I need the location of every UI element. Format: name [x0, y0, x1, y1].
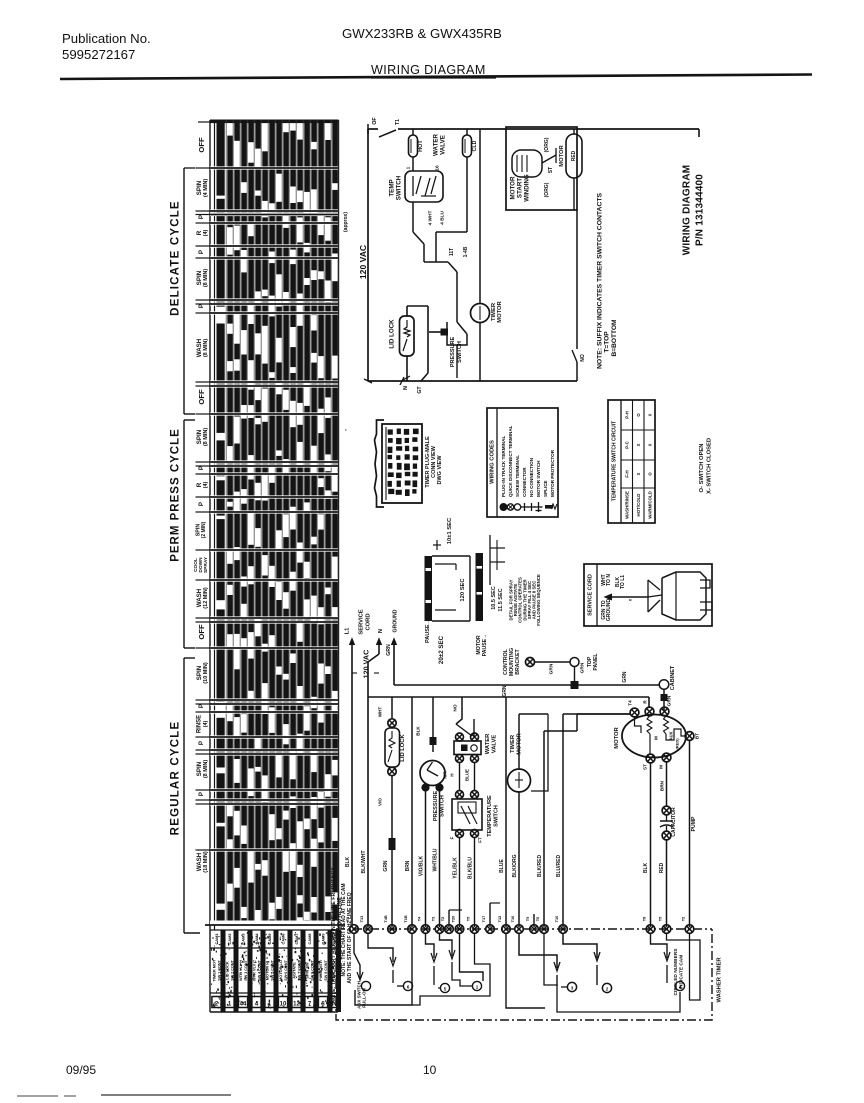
svg-text:3: 3 — [571, 986, 574, 991]
svg-text:CAM2: CAM2 — [227, 933, 232, 945]
svg-text:ST: ST — [643, 764, 648, 770]
bottom schematic: ground bus wire to cabinet — [394, 684, 571, 686]
svg-text:T4: T4 — [628, 700, 633, 706]
bottom schematic: splice square on ground wire — [574, 666, 576, 681]
svg-text:DELICATE CYCLE: DELICATE CYCLE — [170, 200, 182, 316]
chart label column cell ticks — [196, 167, 211, 169]
top schematic: temp switch box — [412, 157, 414, 171]
svg-text:R: R — [196, 482, 203, 487]
svg-text:BLK: BLK — [643, 862, 649, 873]
bottom schematic: lid lock branch — [391, 697, 393, 718]
top schematic: wire cold valve branch — [466, 157, 468, 232]
timer contact group 2 — [368, 934, 393, 963]
timer contact group 5 — [563, 934, 597, 959]
svg-text:PANEL: PANEL — [593, 653, 599, 671]
svg-text:WIRING DIAGRAM: WIRING DIAGRAM — [682, 165, 693, 256]
timing detail: spray pulse — [489, 535, 491, 585]
bottom schematic: motor terminals bottom — [646, 754, 655, 763]
svg-text:SWITCH: SWITCH — [494, 805, 500, 827]
svg-text:10.5 SEC: 10.5 SEC — [491, 586, 497, 610]
chart legend cam number boxes — [212, 997, 221, 1008]
svg-text:CORD: CORD — [366, 613, 372, 630]
svg-text:GRN: GRN — [386, 644, 392, 656]
svg-text:TEMP: TEMP — [389, 179, 396, 196]
svg-text:(ORG): (ORG) — [544, 182, 550, 197]
svg-text:GROUND: GROUND — [393, 609, 399, 632]
svg-text:T4B: T4B — [383, 915, 388, 923]
svg-text:X: X — [636, 443, 641, 446]
timing detail: pause cam bar — [425, 556, 433, 621]
washer timer dash-dot enclosure — [336, 929, 712, 1020]
svg-text:(8 MIN): (8 MIN) — [203, 428, 209, 447]
perm press cycle bracket — [183, 420, 185, 648]
svg-text:SW 9 CONT: SW 9 CONT — [324, 960, 328, 981]
svg-text:120 VAC: 120 VAC — [362, 650, 371, 679]
timer plug connector — [375, 420, 385, 507]
svg-text:PUMP: PUMP — [691, 816, 697, 832]
chart label OFF (top) — [198, 121, 210, 123]
top schematic: start switch contact — [542, 155, 556, 163]
svg-text:PRESSURE: PRESSURE — [433, 791, 439, 822]
svg-text:BLUE: BLUE — [499, 859, 505, 873]
svg-text:12: 12 — [293, 1002, 300, 1008]
svg-text:SW 5 CONT: SW 5 CONT — [270, 960, 274, 981]
svg-text:BLK/ORG: BLK/ORG — [512, 854, 518, 877]
bottom schematic: temp switch wires to bus — [459, 838, 461, 928]
svg-text:RED: RED — [571, 150, 577, 161]
svg-text:M: M — [659, 765, 664, 769]
svg-text:CAM8: CAM8 — [307, 933, 312, 945]
svg-text:(4 MIN): (4 MIN) — [203, 179, 209, 198]
top schematic: lid lock coil + contact — [404, 320, 410, 337]
svg-text:CONNECTOR: CONNECTOR — [522, 467, 527, 497]
extra bus stub wires — [448, 910, 450, 927]
svg-text:L1: L1 — [345, 627, 351, 635]
svg-text:SPIN: SPIN — [196, 180, 203, 195]
svg-text:T1: T1 — [395, 119, 401, 125]
svg-text:VALVE: VALVE — [440, 135, 447, 155]
top schematic: wire temp switch to pressure switch — [412, 202, 414, 232]
svg-text:10: 10 — [423, 1063, 437, 1077]
bottom schematic: pressure switch (lower) — [432, 697, 434, 752]
svg-text:PLUG-IN TRACK TERMINAL: PLUG-IN TRACK TERMINAL — [501, 436, 506, 497]
svg-text:WASH/RINSE: WASH/RINSE — [625, 491, 630, 519]
svg-text:YEL/BLK: YEL/BLK — [453, 857, 459, 879]
svg-text:F: F — [450, 836, 455, 839]
svg-text:BLK/WHT: BLK/WHT — [361, 850, 367, 873]
svg-text:5: 5 — [444, 987, 447, 992]
svg-text:T13: T13 — [359, 915, 364, 923]
svg-text:MOTOR SWITCH: MOTOR SWITCH — [536, 460, 541, 497]
svg-text:TIMER MOT: TIMER MOT — [211, 959, 216, 981]
bottom schematic: control mounting bracket terminal — [526, 658, 535, 667]
svg-text:10±1 SEC: 10±1 SEC — [447, 517, 453, 544]
svg-text:WATER: WATER — [485, 733, 491, 754]
svg-text:MOTOR PROTECTOR: MOTOR PROTECTOR — [550, 449, 555, 497]
top schematic: L1 supply rail (top) — [368, 128, 378, 130]
svg-text:TO L1: TO L1 — [620, 575, 626, 589]
svg-text:MOTOR: MOTOR — [497, 300, 503, 322]
svg-text:BLK/BLU: BLK/BLU — [468, 857, 474, 879]
svg-text:SERVICE CORD: SERVICE CORD — [588, 574, 594, 616]
timer contact group 6 (right) — [651, 934, 668, 959]
bottom schematic: motor to bus wires — [650, 763, 652, 927]
svg-text:WARM/COLD: WARM/COLD — [648, 491, 653, 519]
timer chart cam track stripes — [217, 121, 225, 196]
service cord arrow — [607, 596, 648, 598]
svg-text:N: N — [378, 629, 384, 633]
svg-text:SPRAY: SPRAY — [203, 556, 209, 573]
svg-text:O- SWITCH OPEN: O- SWITCH OPEN — [699, 444, 705, 493]
top schematic: line cam switch — [379, 130, 396, 137]
svg-text:20±2 SEC: 20±2 SEC — [438, 635, 445, 664]
bottom schematic: valve to temp switch wires — [459, 763, 461, 792]
svg-text:GRN: GRN — [667, 695, 673, 706]
timer chart outer frame — [209, 120, 211, 930]
chart legend block grid — [210, 1011, 338, 1013]
svg-text:4: 4 — [679, 985, 682, 990]
svg-text:SPIN: SPIN — [196, 270, 203, 285]
top schematic: start winding coil — [512, 150, 542, 177]
svg-text:BRACKET: BRACKET — [515, 648, 521, 674]
top schematic: temp switch contacts — [412, 176, 414, 196]
svg-text:R: R — [196, 230, 203, 235]
top schematic: bottom rail — [368, 380, 577, 382]
svg-text:WATER: WATER — [433, 134, 440, 156]
svg-text:WINDING: WINDING — [524, 174, 531, 202]
svg-text:4 BLU: 4 BLU — [440, 211, 446, 225]
svg-text:LID LOCK: LID LOCK — [400, 734, 406, 762]
svg-text:REGULAR CYCLE: REGULAR CYCLE — [170, 721, 182, 836]
svg-text:WTR VLV H: WTR VLV H — [238, 960, 243, 981]
top schematic: 120 VAC left rail — [367, 129, 369, 381]
svg-text:GRN: GRN — [383, 860, 389, 872]
svg-text:(8 MIN): (8 MIN) — [203, 760, 209, 779]
svg-text:1: 1 — [476, 985, 479, 990]
wiring codes symbols — [500, 504, 507, 511]
timing detail: 10 sec tick — [436, 540, 438, 550]
timer internal contact leftmost with aux switch label — [354, 934, 360, 979]
bottom schematic: water valve feed — [456, 697, 462, 724]
top schematic: right rail with cam switch — [576, 210, 578, 349]
bottom schematic: motor terminals top — [630, 708, 639, 717]
svg-text:MOTOR: MOTOR — [559, 144, 565, 166]
svg-text:WIRING DIAGRAM: WIRING DIAGRAM — [371, 63, 486, 77]
svg-text:PAUSE→: PAUSE→ — [482, 634, 488, 657]
svg-text:BLK/RED: BLK/RED — [537, 855, 543, 878]
svg-text:GROUND: GROUND — [606, 599, 612, 622]
timer contact group 4 (middle) — [506, 934, 545, 1009]
svg-text:DWG VIEW: DWG VIEW — [437, 455, 443, 485]
svg-text:BLK: BLK — [416, 726, 421, 736]
svg-text:T17: T17 — [481, 916, 486, 923]
bottom schematic: bracket to top panel wire — [535, 661, 570, 663]
svg-text:QUICK DISCONNECT TERMINAL: QUICK DISCONNECT TERMINAL — [508, 425, 513, 497]
svg-text:P: P — [198, 215, 205, 219]
svg-text:10: 10 — [280, 1002, 287, 1008]
bottom schematic: pressure switch wires to bus — [425, 791, 427, 927]
svg-text:SPIN: SPIN — [196, 665, 203, 680]
svg-text:120 VAC: 120 VAC — [358, 245, 368, 279]
top schematic: water valve COLD solenoid — [466, 129, 468, 135]
svg-text:BLU/RED: BLU/RED — [556, 855, 562, 878]
svg-text:SW 8 CONT: SW 8 CONT — [310, 960, 314, 981]
svg-text:NOTE: SUFFIX INDICATES TIMER S: NOTE: SUFFIX INDICATES TIMER SWITCH CONT… — [597, 192, 604, 369]
svg-text:11.5 SEC: 11.5 SEC — [498, 588, 504, 611]
svg-text:WIRING CODES: WIRING CODES — [490, 440, 496, 484]
svg-text:CLD: CLD — [472, 140, 478, 151]
svg-text:MOTOR: MOTOR — [517, 732, 523, 754]
svg-text:N: N — [403, 386, 409, 390]
svg-text:PRESSURE: PRESSURE — [450, 337, 456, 368]
svg-text:CAPACITOR: CAPACITOR — [671, 807, 677, 837]
top schematic: pressure switch (upper) — [447, 322, 467, 345]
svg-text:TEMPERATURE: TEMPERATURE — [487, 795, 493, 837]
svg-text:P-C: P-C — [625, 440, 630, 448]
svg-text:CABINET: CABINET — [670, 665, 676, 690]
bottom schematic: third feed wire — [543, 731, 545, 927]
svg-text:P: P — [198, 466, 205, 470]
svg-text:FT: FT — [478, 837, 483, 843]
bottom schematic: top panel terminal — [570, 658, 579, 667]
svg-text:(ORG): (ORG) — [544, 137, 550, 152]
svg-text:BRN: BRN — [660, 780, 665, 791]
svg-text:VALVE: VALVE — [492, 735, 498, 754]
svg-text:GWX233RB & GWX435RB: GWX233RB & GWX435RB — [342, 26, 502, 41]
svg-text:X: X — [648, 443, 653, 446]
svg-text:X- SWITCH CLOSED: X- SWITCH CLOSED — [707, 438, 713, 494]
svg-text:MR: MR — [443, 771, 449, 779]
svg-text:BLUE: BLUE — [465, 769, 470, 781]
top schematic: motor (upper) body — [566, 134, 582, 178]
svg-text:FOLLOWING SEQUENCE: FOLLOWING SEQUENCE — [536, 574, 541, 626]
svg-text:ST: ST — [548, 167, 554, 173]
svg-text:H: H — [450, 773, 455, 776]
svg-text:P: P — [198, 741, 205, 745]
svg-text:2: 2 — [606, 987, 609, 992]
chart legend column separator stripes — [221, 930, 226, 1012]
svg-text:P-H: P-H — [625, 411, 630, 419]
bottom schematic: box around timer motor — [531, 714, 548, 791]
svg-text:MOTOR: MOTOR — [510, 176, 517, 199]
timing detail: motor pause bar — [476, 553, 484, 621]
svg-text:T10: T10 — [554, 916, 559, 923]
svg-text:P: P — [198, 250, 205, 254]
bottom schematic: timer motor (lower) — [505, 697, 507, 927]
delicate cycle bracket — [183, 168, 185, 414]
svg-text:TEMPERATURE SWITCH CIRCUIT: TEMPERATURE SWITCH CIRCUIT — [612, 421, 618, 501]
temperature switch circuit table — [608, 400, 655, 523]
svg-text:F-H: F-H — [625, 470, 630, 477]
svg-text:LID LOCK: LID LOCK — [389, 319, 396, 349]
svg-text:MOTOR LO: MOTOR LO — [278, 960, 283, 981]
svg-text:P: P — [198, 502, 205, 506]
svg-text:(8 MIN): (8 MIN) — [203, 339, 209, 358]
timer plug pin blobs — [388, 429, 393, 434]
bottom schematic: main top wire — [368, 696, 649, 698]
svg-text:GT: GT — [417, 386, 423, 394]
svg-text:SPIN: SPIN — [196, 429, 203, 444]
svg-text:T20: T20 — [451, 916, 456, 923]
svg-text:P: P — [198, 304, 205, 308]
header horizontal rule — [60, 75, 812, 80]
svg-text:T=TOP: T=TOP — [604, 331, 611, 353]
svg-text:START: START — [517, 178, 524, 198]
svg-text:09/95: 09/95 — [66, 1063, 96, 1077]
svg-text:P: P — [198, 792, 205, 796]
svg-text:(4): (4) — [203, 720, 209, 727]
svg-text:T1B: T1B — [403, 915, 408, 923]
top schematic: lid lock wiring loop — [406, 306, 408, 316]
svg-text:OFF: OFF — [197, 137, 206, 153]
bottom schematic: plain wire BRN — [411, 697, 413, 927]
svg-text:NO CONNECTION: NO CONNECTION — [529, 457, 534, 497]
svg-text:(approx): (approx) — [343, 212, 349, 232]
top schematic: lid lock box — [400, 316, 415, 356]
svg-text:X: X — [636, 472, 641, 475]
service cord plug drawing — [662, 572, 706, 620]
svg-text:M: M — [654, 736, 659, 740]
svg-text:SPLICE: SPLICE — [543, 480, 548, 497]
svg-text:OFF: OFF — [197, 624, 206, 640]
svg-text:B=BOTTOM: B=BOTTOM — [611, 319, 618, 357]
bottom schematic: neutral wire — [378, 640, 380, 654]
svg-text:1-4B: 1-4B — [463, 246, 469, 257]
svg-text:WASH: WASH — [196, 338, 203, 357]
svg-text:4 WHT: 4 WHT — [428, 210, 434, 225]
regular cycle bracket — [183, 658, 185, 933]
svg-text:120 SEC: 120 SEC — [460, 578, 466, 602]
bottom schematic: temperature switch (lower) — [456, 791, 464, 799]
svg-text:VIO: VIO — [378, 798, 383, 806]
svg-text:SWITCH: SWITCH — [396, 175, 403, 200]
svg-text:T12: T12 — [497, 915, 502, 923]
svg-text:WASH: WASH — [196, 588, 203, 607]
svg-text:SWITCH: SWITCH — [440, 795, 446, 817]
svg-text:44: 44 — [240, 1002, 247, 1008]
svg-text:X: X — [648, 413, 653, 416]
timer chart track separator lines — [225, 120, 227, 925]
svg-text:RED: RED — [659, 862, 665, 873]
top schematic: water valve HOT solenoid — [412, 129, 414, 135]
svg-text:CAM1: CAM1 — [214, 933, 219, 945]
svg-text:GRN: GRN — [622, 671, 628, 683]
svg-text:WHT/BLU: WHT/BLU — [433, 848, 439, 871]
svg-text:SW 1 CONT: SW 1 CONT — [217, 960, 221, 981]
bottom schematic: ground wire GRN — [393, 640, 395, 685]
service cord wires — [647, 580, 649, 612]
svg-text:TO N: TO N — [606, 574, 612, 586]
svg-text:WASH: WASH — [196, 852, 203, 871]
svg-text:6: 6 — [407, 985, 410, 990]
top schematic: motor start winding box — [506, 127, 577, 210]
bottom schematic: pump wire — [689, 741, 691, 928]
svg-text:PERM PRESS CYCLE: PERM PRESS CYCLE — [170, 428, 182, 562]
svg-text:(8 MIN): (8 MIN) — [203, 269, 209, 288]
svg-text:MOTOR: MOTOR — [614, 726, 620, 748]
timer bus dash-dot line — [336, 928, 712, 930]
svg-text:BLK: BLK — [345, 856, 351, 867]
svg-text:NO: NO — [453, 704, 459, 711]
svg-text:NO: NO — [580, 354, 586, 362]
bottom schematic: motor internal windings — [635, 717, 642, 733]
svg-text:P: P — [198, 704, 205, 708]
svg-text:BRN: BRN — [405, 860, 411, 871]
svg-text:5995272167: 5995272167 — [62, 47, 135, 62]
svg-text:Publication No.: Publication No. — [62, 31, 151, 46]
wiring codes legend box — [487, 408, 558, 517]
timer chart cycle increment lines — [210, 166, 338, 169]
svg-text:PAUSE→: PAUSE→ — [425, 619, 431, 643]
bottom schematic: wire from main wire to motor — [629, 713, 631, 714]
svg-text:1: 1 — [406, 166, 412, 169]
svg-text:(12 MIN): (12 MIN) — [203, 587, 209, 609]
top schematic: timer motor (upper) — [479, 129, 481, 304]
svg-text:BT: BT — [695, 733, 700, 739]
bottom schematic: second feed wire to motor — [563, 713, 630, 715]
svg-text:AND THE START OF 60 HZ LINE FR: AND THE START OF 60 HZ LINE FREQ — [347, 892, 353, 983]
svg-text:SCREW TERMINAL: SCREW TERMINAL — [515, 455, 520, 497]
svg-text:GRN: GRN — [580, 662, 586, 673]
svg-text:WASHER TIMER: WASHER TIMER — [717, 957, 723, 1003]
svg-text:(RED): (RED) — [675, 738, 680, 750]
svg-text:OFF: OFF — [197, 389, 206, 405]
svg-text:16: 16 — [435, 165, 441, 171]
svg-text:GRN: GRN — [502, 685, 508, 697]
timer contact group 3 — [426, 934, 435, 959]
timer bus terminals — [350, 925, 359, 934]
footer stray scan line — [17, 1095, 58, 1097]
svg-text:11T: 11T — [449, 248, 455, 256]
svg-text:WTR VLV C: WTR VLV C — [251, 960, 256, 981]
timer chart bottom edge — [210, 921, 338, 925]
svg-text:(2 MIN): (2 MIN) — [201, 521, 207, 538]
bottom schematic: motor (lower) body — [622, 715, 686, 758]
bottom schematic: cabinet to motor ground wire — [663, 690, 665, 712]
svg-text:P/N 131344400: P/N 131344400 — [695, 174, 706, 246]
bottom schematic: cabinet terminal — [659, 680, 669, 690]
svg-text:WHT: WHT — [378, 707, 383, 718]
bottom schematic: motor right terminal — [685, 732, 694, 741]
svg-text:SPIN: SPIN — [196, 761, 203, 776]
bottom schematic: water valve (lower) — [456, 733, 464, 741]
svg-text:RINSE: RINSE — [197, 715, 203, 733]
svg-text:TIMER: TIMER — [510, 734, 516, 753]
svg-text:SWITCH: SWITCH — [457, 341, 463, 363]
timing detail: 120 sec frame — [432, 555, 470, 557]
svg-text:HOT: HOT — [418, 140, 424, 152]
svg-text:(10 MIN): (10 MIN) — [203, 662, 209, 684]
svg-text:VIO/BLK: VIO/BLK — [419, 855, 425, 876]
svg-text:T16: T16 — [510, 915, 515, 923]
svg-text:(4): (4) — [203, 229, 209, 236]
svg-text:OF: OF — [372, 117, 378, 124]
bottom schematic: L1 wire to bus — [351, 640, 353, 927]
svg-text:(4): (4) — [203, 481, 209, 488]
svg-text:(18 MIN): (18 MIN) — [203, 851, 209, 873]
svg-text:GRN: GRN — [549, 663, 555, 674]
service cord detail box — [584, 564, 712, 626]
svg-text:SERVICE: SERVICE — [359, 609, 365, 634]
svg-text:AUX: AUX — [669, 731, 674, 740]
bottom schematic: capacitor branch — [666, 762, 668, 806]
svg-text:HOT/COLD: HOT/COLD — [636, 494, 641, 517]
